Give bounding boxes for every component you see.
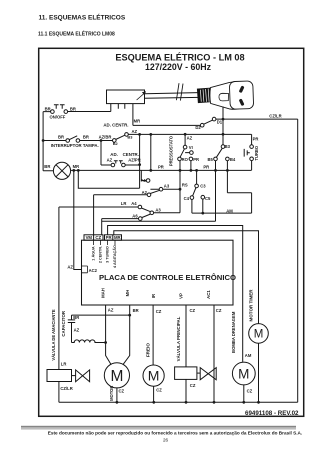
svg-text:2 CENTR.: 2 CENTR. <box>99 246 103 263</box>
svg-text:TURBO: TURBO <box>254 145 259 160</box>
svg-text:CZ/LR: CZ/LR <box>269 114 281 119</box>
svg-text:BR: BR <box>70 107 76 112</box>
svg-text:MR: MR <box>134 118 141 123</box>
svg-text:AZ: AZ <box>67 265 73 270</box>
svg-text:AZ: AZ <box>187 135 193 140</box>
svg-text:M: M <box>254 328 264 340</box>
svg-text:PLACA DE CONTROLE ELETRÔNICO: PLACA DE CONTROLE ELETRÔNICO <box>99 273 236 282</box>
svg-text:PR: PR <box>106 235 113 240</box>
svg-text:AZ/BR: AZ/BR <box>99 134 112 139</box>
svg-text:RO: RO <box>182 157 189 162</box>
svg-text:AZ: AZ <box>132 129 138 134</box>
svg-text:A6: A6 <box>132 214 138 219</box>
svg-text:M: M <box>110 368 123 385</box>
svg-text:CENTR.: CENTR. <box>123 152 139 157</box>
svg-text:LR: LR <box>61 362 67 367</box>
svg-text:IR: IR <box>151 293 156 298</box>
svg-text:B5: B5 <box>208 157 214 162</box>
svg-text:B4: B4 <box>230 157 236 162</box>
svg-text:BR: BR <box>58 135 64 140</box>
svg-text:11. ESQUEMAS ELÉTRICOS: 11. ESQUEMAS ELÉTRICOS <box>39 13 126 22</box>
svg-text:VP: VP <box>179 293 184 299</box>
svg-text:LR: LR <box>121 201 127 206</box>
svg-text:D1: D1 <box>217 119 223 124</box>
svg-text:AZ: AZ <box>108 308 114 313</box>
svg-text:AZ: AZ <box>74 328 80 333</box>
svg-text:RS: RS <box>182 183 188 188</box>
svg-text:CZ: CZ <box>156 309 162 314</box>
svg-text:M: M <box>148 368 160 384</box>
svg-text:AM: AM <box>245 353 252 358</box>
svg-text:PR: PR <box>253 136 259 141</box>
svg-text:CZ: CZ <box>190 308 196 313</box>
svg-text:ESQUEMA ELÉTRICO - LM 08: ESQUEMA ELÉTRICO - LM 08 <box>115 51 244 62</box>
svg-text:BR: BR <box>45 106 51 111</box>
svg-text:BR: BR <box>73 315 79 320</box>
svg-text:PRESSOSTATO: PRESSOSTATO <box>168 135 173 166</box>
svg-text:FREIO: FREIO <box>146 343 151 357</box>
svg-text:MR: MR <box>114 235 122 240</box>
svg-text:B3: B3 <box>127 135 133 140</box>
svg-text:AD.: AD. <box>110 152 118 157</box>
svg-text:MAH: MAH <box>100 288 105 298</box>
svg-text:B3: B3 <box>225 144 231 149</box>
svg-text:C3: C3 <box>200 183 206 188</box>
svg-text:BR: BR <box>133 308 139 313</box>
svg-text:VI: VI <box>189 145 193 150</box>
svg-text:Este documento não pode ser re: Este documento não pode ser reproduzido … <box>48 431 303 436</box>
svg-text:A2: A2 <box>142 190 148 195</box>
svg-text:127/220V - 60Hz: 127/220V - 60Hz <box>145 62 212 72</box>
svg-text:A4: A4 <box>131 201 137 206</box>
svg-text:AC2: AC2 <box>89 268 98 273</box>
svg-text:CZ: CZ <box>119 389 125 394</box>
svg-text:M: M <box>238 366 249 381</box>
svg-text:A1: A1 <box>141 178 147 183</box>
svg-text:BR: BR <box>44 164 50 169</box>
svg-text:1 ÁGUA: 1 ÁGUA <box>91 246 96 261</box>
svg-text:MOTOR: MOTOR <box>109 386 114 401</box>
svg-text:A3: A3 <box>164 183 170 188</box>
svg-text:MH: MH <box>125 290 130 297</box>
svg-text:VÁLVULA DE AMACIANTE: VÁLVULA DE AMACIANTE <box>51 309 56 361</box>
svg-text:D2: D2 <box>195 125 201 130</box>
svg-text:ON/OFF: ON/OFF <box>50 115 66 120</box>
svg-text:11.1 ESQUEMA ELÉTRICO LM08: 11.1 ESQUEMA ELÉTRICO LM08 <box>38 29 115 37</box>
svg-text:69491108 - REV.02: 69491108 - REV.02 <box>245 410 299 417</box>
svg-text:CZ: CZ <box>156 387 162 392</box>
svg-text:PR: PR <box>193 157 199 162</box>
svg-text:BR: BR <box>83 135 89 140</box>
svg-text:PR: PR <box>203 164 209 169</box>
svg-text:BOMBA DRENAGEM: BOMBA DRENAGEM <box>231 311 236 353</box>
svg-text:INTERRUPTOR TAMPA.: INTERRUPTOR TAMPA. <box>51 143 99 148</box>
svg-text:MOTOR TIMER: MOTOR TIMER <box>248 289 253 322</box>
svg-text:AZ: AZ <box>107 158 113 163</box>
svg-text:AZ/PR: AZ/PR <box>128 158 141 163</box>
svg-text:3 TURBO: 3 TURBO <box>106 246 110 263</box>
svg-text:CZ: CZ <box>216 308 222 313</box>
svg-text:26: 26 <box>163 438 169 443</box>
svg-text:PR: PR <box>158 165 164 170</box>
svg-text:MR: MR <box>73 164 80 169</box>
svg-text:CZ/LR: CZ/LR <box>60 386 72 391</box>
svg-text:B2: B2 <box>113 141 119 146</box>
svg-text:CAPACITOR: CAPACITOR <box>61 310 66 337</box>
svg-text:CZ: CZ <box>190 383 196 388</box>
svg-text:4 AGITAÇÃO: 4 AGITAÇÃO <box>112 245 117 268</box>
svg-text:AM: AM <box>226 208 233 213</box>
svg-text:AD. CENTR.: AD. CENTR. <box>103 123 128 128</box>
svg-text:VÁLVULA PRINCIPAL: VÁLVULA PRINCIPAL <box>176 316 181 361</box>
svg-text:C5: C5 <box>205 196 211 201</box>
svg-text:CZ: CZ <box>95 235 101 240</box>
svg-text:A3: A3 <box>155 208 161 213</box>
svg-text:C4: C4 <box>184 196 190 201</box>
svg-text:VM: VM <box>86 235 93 240</box>
svg-text:AC1: AC1 <box>206 290 211 299</box>
svg-text:CZ: CZ <box>247 388 253 393</box>
